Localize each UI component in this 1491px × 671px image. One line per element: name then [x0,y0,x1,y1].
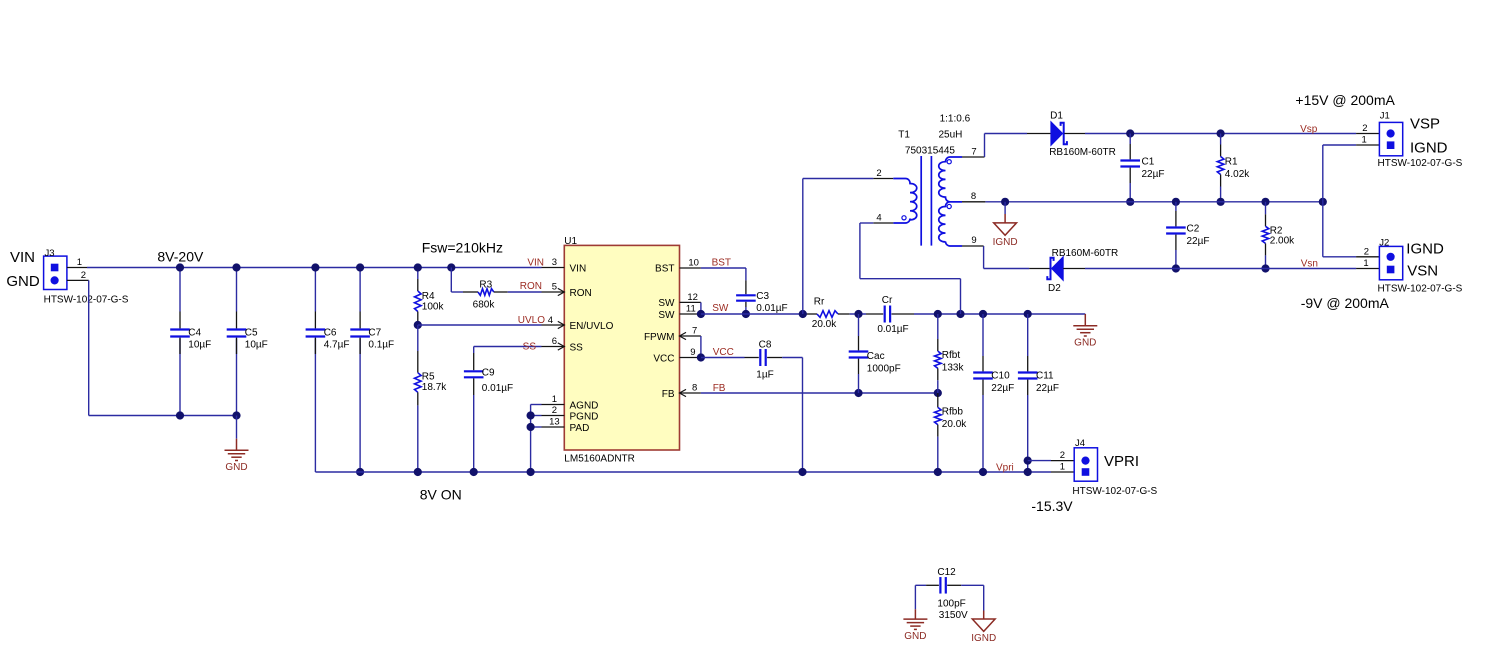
svg-text:RB160M-60TR: RB160M-60TR [1049,147,1116,158]
resistor Rr left lead [806,313,818,315]
svg-text:10: 10 [688,258,699,269]
J2 pin 1 (square) [1387,266,1395,274]
svg-text:-9V @ 200mA: -9V @ 200mA [1301,295,1390,311]
capacitor C12 left wire [915,584,926,586]
junction C10 bottom [979,468,987,476]
svg-text:IGND: IGND [1410,139,1448,156]
U1 pin 3 VIN stub [542,267,565,269]
junction R2 top [1261,198,1269,206]
wire C8 elbow down to bottom rail [802,358,804,473]
svg-text:SW: SW [712,303,729,314]
U1 pin 10 BST stub [680,267,701,269]
svg-text:0.01µF: 0.01µF [482,383,513,394]
svg-text:22µF: 22µF [1142,169,1165,180]
svg-text:1: 1 [1362,135,1367,146]
C2 bottom lead [1175,235,1177,250]
svg-text:2.00k: 2.00k [1270,235,1295,246]
svg-text:SS: SS [523,341,537,352]
C12 right wire [961,584,984,586]
junction C2 top [1172,198,1180,206]
junction FB/Cac [854,389,862,397]
connector J3 (VIN input header) [44,256,67,289]
wire Rr to Cr [850,313,866,315]
junction IGND stub [1001,198,1009,206]
svg-text:EN/UVLO: EN/UVLO [570,321,614,332]
T1 pin 7 stub [962,156,985,158]
resistor R1 [1217,157,1224,175]
capacitor C3 [736,295,756,300]
svg-text:D1: D1 [1050,111,1063,122]
U1 pin 13 PAD stub [542,426,565,428]
svg-text:Rfbb: Rfbb [942,407,964,418]
wire input gnd horizontal [89,415,237,417]
svg-text:0.1µF: 0.1µF [368,339,394,350]
svg-text:11: 11 [686,303,696,314]
svg-text:1: 1 [552,394,557,405]
svg-text:U1: U1 [564,236,577,247]
Cr left lead [866,313,883,315]
svg-text:2: 2 [876,168,881,179]
capacitor C9 branch - SS wire [474,346,542,348]
wire IGND stem [1004,202,1006,214]
svg-text:C2: C2 [1187,224,1200,235]
resistor R4 [415,291,422,312]
svg-text:1000pF: 1000pF [867,364,901,375]
resistor Rfbb [935,407,942,424]
svg-text:T1: T1 [898,130,910,141]
svg-text:GND: GND [225,462,247,473]
svg-text:C8: C8 [759,340,772,351]
svg-text:C12: C12 [937,567,956,578]
capacitor C1 top lead [1129,134,1131,145]
junction FB/Rfb divider [934,389,942,397]
svg-text:J4: J4 [1075,438,1085,449]
svg-text:VIN: VIN [10,249,35,266]
Rr right lead [838,313,850,315]
svg-text:SW: SW [658,310,675,321]
svg-text:20.0k: 20.0k [812,319,837,330]
svg-text:22µF: 22µF [991,383,1014,394]
T1 pin 2 stub [873,178,893,180]
C1 bottom lead [1129,168,1131,183]
J3 pin 1 stub [67,267,87,269]
svg-text:BST: BST [655,264,674,275]
svg-text:1: 1 [1363,258,1368,269]
svg-text:2: 2 [1060,450,1065,461]
junction C11/J4 pin2 tap [1024,457,1032,465]
Rfbb bottom lead [937,425,939,437]
junction C7 bottom [356,468,364,476]
svg-text:4.7µF: 4.7µF [324,339,350,350]
wire J1 pin1 horizontal [1323,144,1356,146]
junction PGND [527,411,535,419]
svg-text:C9: C9 [482,368,495,379]
svg-text:25uH: 25uH [939,130,963,141]
svg-text:C6: C6 [324,327,337,338]
U1 pin 2 PGND stub [542,415,565,417]
U1 pin 7 FPWM stub [680,335,701,337]
svg-text:Fsw=210kHz: Fsw=210kHz [422,240,503,256]
Rfbt bottom lead [937,368,939,380]
resistor R3 [478,289,494,296]
U1 pin 8 input arrow [680,389,687,396]
svg-text:20.0k: 20.0k [942,419,967,430]
junction C9 bottom [470,468,478,476]
J2 pin 2 stub [1356,256,1379,258]
wire pin12 to pin11 [700,302,702,314]
junction SW/Cac [854,310,862,318]
capacitor C10 [973,373,993,379]
junction R4/R5 UVLO node [414,321,422,329]
capacitor C4 vertical wire [179,268,181,312]
svg-text:VPRI: VPRI [1104,453,1139,470]
svg-text:UVLO: UVLO [518,315,545,326]
ground IGND at C12 [972,611,995,632]
svg-text:SW: SW [658,298,675,309]
svg-text:VSN: VSN [1407,263,1438,280]
capacitor C7 [350,330,370,337]
capacitor C6 vertical wire [314,268,316,312]
C11 bottom lead [1027,380,1029,395]
svg-text:SS: SS [570,342,584,353]
svg-text:RON: RON [570,288,592,299]
R5 bottom lead [417,392,419,405]
junction gnd vertical to bottom rail [527,468,535,476]
J2 pin 1 stub [1356,268,1379,270]
svg-text:7: 7 [971,146,976,157]
wire T1 pin4 to left elbow [860,222,873,224]
svg-text:4: 4 [876,213,881,224]
J3 pin 1 (square) [51,264,59,272]
U1 pin 5 RON stub [542,291,565,293]
J2 pin 2 (circle) [1387,253,1395,261]
capacitor C4 [170,330,190,337]
svg-text:RB160M-60TR: RB160M-60TR [1052,248,1119,259]
svg-text:R5: R5 [422,371,435,382]
wire J2 pin2 horizontal [1323,256,1356,258]
T1 secondary bottom phase dot [947,204,951,208]
svg-text:2: 2 [1364,246,1369,257]
ground GND under C5 [225,439,249,461]
capacitor C2 [1166,228,1186,234]
J3 pin 2 stub [67,279,89,281]
svg-text:1: 1 [1060,462,1065,473]
T1 pin 8 stub [962,201,985,203]
svg-text:13: 13 [549,417,560,428]
ground IGND below pin 8 [994,214,1017,235]
svg-text:Vsn: Vsn [1301,258,1318,269]
junction SW/C10 [979,310,987,318]
diode D1 right stub [1064,133,1085,135]
svg-text:VCC: VCC [653,353,674,364]
junction R1 bottom [1217,198,1225,206]
bottom rail wire (8V ON / Vpri net) [315,471,1051,473]
junction C3 bottom [742,310,750,318]
svg-text:5: 5 [552,282,557,293]
U1 pin 1 AGND stub [542,404,565,406]
Cr right lead [892,313,915,315]
J1 pin 2 stub [1356,133,1379,135]
capacitor C11 [1018,373,1038,379]
capacitor C9 [464,371,484,377]
FB rail wire [701,392,938,394]
U1 pin 5 input arrow [558,288,565,295]
svg-text:Cr: Cr [882,295,893,306]
connector J4 (VPRI header) [1074,448,1097,481]
connector J2 (VSN output header) [1379,246,1402,279]
svg-text:18.7k: 18.7k [422,382,447,393]
capacitor C11 top lead [1027,314,1029,356]
capacitor C5 vertical wire [236,268,238,312]
svg-text:4: 4 [548,315,553,326]
resistor Rr [817,311,838,318]
R1 bottom lead [1220,175,1222,187]
capacitor Cr [885,306,890,323]
wire BST to C3 [701,267,746,269]
capacitor C8 [760,349,765,366]
capacitor Cac top lead [858,314,860,336]
Vsn rail wire [1085,268,1356,270]
junction SW/Rfbt [934,310,942,318]
capacitor C5 [227,330,247,337]
svg-text:C1: C1 [1142,157,1155,168]
diode D2 RB160M-60TR (schottky) [1047,257,1063,281]
svg-text:0.01µF: 0.01µF [877,324,908,335]
T1 primary winding [893,179,916,224]
junction C7 top [356,263,364,271]
junction SW/T1 pin2 [799,310,807,318]
svg-text:1: 1 [77,257,82,268]
resistor R2 [1262,226,1269,243]
wire IGND vertical J1-J2 [1322,145,1324,257]
U1 pin 12 SW stub [680,301,701,303]
svg-text:C10: C10 [991,370,1010,381]
capacitor C12 [940,577,945,594]
U1 pin 11 SW stub [680,313,701,315]
svg-text:7: 7 [692,326,697,337]
svg-text:750315445: 750315445 [905,145,955,156]
junction SW/T1 pin4 [956,310,964,318]
J1 pin 1 (square) [1387,141,1395,149]
C3 top lead [745,280,747,294]
resistor R5 [415,373,422,393]
ground GND at SW rail right end [1073,314,1097,336]
capacitor C2 top lead [1175,202,1177,211]
diode D2 left stub [1029,268,1051,270]
junction VCC/FPWM [697,353,705,361]
C3 bottom lead [745,302,747,307]
U1 pin 6 SS stub [542,346,565,348]
R4 bottom lead [417,312,419,322]
junction RON branch [447,263,455,271]
svg-text:VIN: VIN [570,263,587,274]
connector J1 (VSP output header) [1379,122,1402,155]
wire PGND to vertical [531,415,542,417]
svg-text:22µF: 22µF [1036,383,1059,394]
wire R3 to RON pin [508,291,542,293]
wire pin9 down to D2 rail [983,246,985,269]
svg-text:HTSW-102-07-G-S: HTSW-102-07-G-S [1072,486,1157,497]
svg-text:10µF: 10µF [245,339,268,350]
svg-text:AGND: AGND [570,400,599,411]
top rail wire Vsp [1085,133,1356,135]
svg-text:1µF: 1µF [756,369,773,380]
ground GND at C12 [903,609,927,629]
svg-text:8: 8 [692,383,697,394]
svg-text:VCC: VCC [713,347,734,358]
wire RON branch down [450,268,452,293]
U1 pin 8 FB stub [680,392,701,394]
wire VCC to C8 [701,357,745,359]
U1 pin 4 EN/UVLO stub [542,324,565,326]
T1 secondary top phase dot [947,160,951,164]
junction R5 bottom [414,468,422,476]
diode D1 left stub [1027,133,1051,135]
capacitor C1 [1120,161,1140,167]
svg-text:12: 12 [687,292,698,303]
svg-text:0.01µF: 0.01µF [756,303,787,314]
svg-text:FPWM: FPWM [644,332,675,343]
capacitor C10 top lead [982,314,984,356]
svg-text:C11: C11 [1036,370,1054,381]
diode D1 RB160M-60TR (schottky) [1051,122,1067,146]
svg-text:3: 3 [552,257,557,268]
J3 pin 2 (circle) [51,276,59,284]
wire C8 to elbow [782,357,802,359]
wire C12 left down [914,585,916,609]
svg-text:GND: GND [904,631,926,642]
J4 pin 1 (square) [1082,468,1090,476]
C10 bottom lead [982,380,984,395]
svg-text:2: 2 [81,270,86,281]
svg-text:+15V @ 200mA: +15V @ 200mA [1295,92,1395,108]
svg-text:D2: D2 [1048,283,1061,294]
U1 pin 4 input arrow [558,321,565,328]
R3 left lead [463,291,478,293]
R3 right lead [494,291,508,293]
svg-text:C5: C5 [245,327,258,338]
svg-text:J1: J1 [1380,111,1390,122]
svg-text:C3: C3 [756,291,769,302]
svg-text:PGND: PGND [570,411,599,422]
svg-text:8: 8 [971,191,976,202]
junction C4 bottom [176,411,184,419]
svg-text:IGND: IGND [971,633,996,644]
SW rail wire [701,313,806,315]
svg-text:22µF: 22µF [1187,236,1210,247]
junction PAD [527,423,535,431]
junction C11 bottom [1024,468,1032,476]
capacitor C6 [306,330,326,337]
resistor R2 top lead [1265,202,1267,215]
svg-text:8V-20V: 8V-20V [157,249,204,265]
capacitor Cac [849,352,869,358]
svg-text:HTSW-102-07-G-S: HTSW-102-07-G-S [1378,158,1463,169]
svg-text:LM5160ADNTR: LM5160ADNTR [564,453,635,464]
svg-text:9: 9 [971,235,976,246]
junction C1 bottom [1126,198,1134,206]
wire J3 pin2 down [88,280,90,415]
T1 core lines [920,156,922,246]
wire FPWM to VCC [700,336,702,358]
svg-text:6: 6 [552,336,557,347]
J1 pin 2 (circle) [1387,129,1395,137]
op-amp U1 LM5160ADNTR body [564,245,679,450]
junction SW/C11 [1024,310,1032,318]
T1 secondary winding bottom (pins 8-9) [939,202,962,246]
J1 pin 1 stub [1356,144,1379,146]
svg-text:680k: 680k [473,300,496,311]
svg-text:R4: R4 [422,291,435,302]
T1 secondary winding top (pins 7-8) [939,157,962,202]
resistor Rfbt [935,351,942,368]
wire C12 right down [983,585,985,610]
svg-text:GND: GND [6,273,40,290]
svg-text:Vpri: Vpri [996,462,1014,473]
svg-text:Vsp: Vsp [1300,124,1318,135]
wire VIN rail from J3 to U1 [87,267,542,269]
junction Rfbb bottom [934,468,942,476]
svg-text:PAD: PAD [570,423,590,434]
svg-text:C4: C4 [188,327,201,338]
mid rail wire (IGND net) [985,201,1322,203]
svg-text:100pF: 100pF [937,598,965,609]
svg-text:R1: R1 [1225,157,1238,168]
svg-text:3150V: 3150V [939,610,968,621]
resistor R1 top lead [1220,134,1222,145]
wire PAD to vertical [531,426,542,428]
C9 bottom lead [473,378,475,395]
wire SW to T1 pin 2 vertical [802,179,804,315]
svg-text:4.02k: 4.02k [1225,169,1250,180]
wire pin7 up to D1 rail [984,134,986,158]
svg-text:VIN: VIN [527,257,544,268]
wire Cr to GND segment [914,313,1085,315]
resistor Rfbt top lead [937,314,939,339]
svg-text:HTSW-102-07-G-S: HTSW-102-07-G-S [1378,284,1463,295]
resistor Rfbb top lead [937,393,939,407]
wire AGND to vertical [531,404,542,406]
svg-text:GND: GND [1074,338,1096,349]
wire RON branch to R3 [451,291,463,293]
svg-text:100k: 100k [422,302,445,313]
junction C5 top [232,263,240,271]
resistor R5 top lead [417,325,419,351]
junction C5 bottom [232,411,240,419]
svg-text:IGND: IGND [993,237,1018,248]
junction SW pins [697,310,705,318]
junction C2 bottom [1172,264,1180,272]
junction C4 top [176,263,184,271]
svg-text:RON: RON [520,281,542,292]
svg-text:J3: J3 [45,248,55,259]
diode D2 right stub [1063,268,1085,270]
svg-text:R3: R3 [479,279,492,290]
svg-text:C7: C7 [368,327,381,338]
junction R2 bottom [1261,264,1269,272]
C12 right lead [947,584,961,586]
svg-text:1:1:0.6: 1:1:0.6 [940,114,971,125]
U1 pin 6 input arrow [558,343,565,350]
svg-text:9: 9 [690,347,695,358]
svg-text:-15.3V: -15.3V [1031,498,1073,514]
svg-text:HTSW-102-07-G-S: HTSW-102-07-G-S [44,294,129,305]
svg-text:BST: BST [712,258,731,269]
svg-text:Cac: Cac [867,351,885,362]
J4 pin 2 stub [1051,460,1074,462]
wire SS elbow down [473,347,475,354]
svg-text:Rr: Rr [814,296,825,307]
